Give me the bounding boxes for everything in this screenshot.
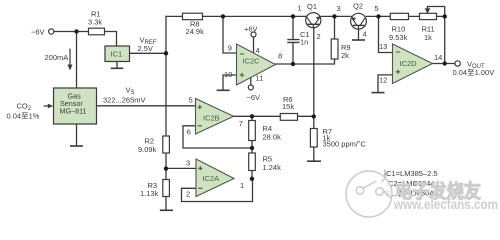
svg-text:Q1: Q1	[307, 2, 317, 11]
pin number labels	[186, 4, 442, 199]
svg-text:IC2C: IC2C	[243, 57, 261, 66]
node Q1 base R7	[312, 114, 316, 118]
svg-text:1: 1	[298, 4, 302, 13]
voltage reference IC1	[105, 46, 130, 62]
resistor R5	[249, 153, 281, 172]
svg-text:8: 8	[278, 52, 282, 61]
op-amp IC2D	[393, 44, 433, 84]
node IC2A output	[250, 177, 254, 181]
node IC2B output	[250, 114, 254, 118]
node pin9 rail	[221, 14, 225, 18]
node Vout	[443, 61, 447, 65]
node junction dots	[74, 14, 447, 181]
wire IC2C pin9 drop	[223, 16, 237, 53]
svg-text:IC2A: IC2A	[203, 174, 220, 183]
wire C1 branch	[292, 16, 294, 64]
svg-text:13: 13	[379, 42, 387, 51]
watermark logo	[346, 169, 392, 217]
ground IC2C pin10	[217, 89, 230, 91]
wire IC2C pin10 to ground	[223, 75, 237, 90]
svg-text:3500 ppm/˚C: 3500 ppm/˚C	[323, 140, 367, 149]
svg-text:−6V: −6V	[247, 93, 261, 102]
svg-text:IC1: IC1	[111, 50, 123, 59]
resistor R9	[331, 39, 350, 60]
wire Vs sensor to IC2B pin5	[96, 105, 196, 107]
arrow 200mA	[45, 49, 73, 71]
svg-text:3: 3	[337, 4, 341, 13]
resistor R3	[140, 180, 169, 199]
svg-text:IC2B: IC2B	[203, 113, 220, 122]
svg-text:4: 4	[363, 30, 367, 39]
transistor Q1	[306, 2, 321, 28]
wire IC2D pin12 to ground	[378, 75, 393, 93]
svg-text:28.0k: 28.0k	[263, 133, 282, 142]
svg-text:10: 10	[224, 70, 232, 79]
svg-text:MG–811: MG–811	[60, 107, 87, 116]
svg-text:1n: 1n	[300, 38, 308, 47]
terminal -6V	[31, 28, 54, 37]
capacitor C1	[287, 30, 309, 47]
ground IC2D pin12	[372, 92, 385, 94]
svg-text:1k: 1k	[424, 33, 432, 42]
svg-text:Q2: Q2	[353, 2, 363, 11]
resistor R6	[280, 95, 297, 120]
node 3 rail	[332, 14, 336, 18]
svg-text:6: 6	[187, 128, 191, 137]
svg-text:2: 2	[317, 32, 321, 41]
svg-text:1.24k: 1.24k	[263, 163, 282, 172]
svg-text:5: 5	[375, 4, 379, 13]
wire R4 R5 chain	[251, 116, 253, 179]
op-amp IC2A	[196, 159, 234, 197]
node C1 rail	[291, 14, 295, 18]
svg-text:1: 1	[240, 181, 244, 190]
resistor R2	[138, 136, 169, 154]
wire sensor top drop	[76, 32, 78, 89]
node IC2C output	[291, 62, 295, 66]
wire IC2C output to R9	[276, 16, 335, 64]
resistor R4	[249, 121, 281, 142]
svg-text:+6V: +6V	[244, 25, 258, 34]
svg-text:7: 7	[239, 119, 243, 128]
transistor Q2	[351, 2, 367, 30]
wire R7 lead	[313, 117, 315, 161]
svg-text:322...265mV: 322...265mV	[103, 96, 146, 105]
op-amp IC2C	[237, 44, 276, 85]
resistor R10	[389, 13, 409, 42]
svg-text:www.elecfans.com: www.elecfans.com	[393, 197, 498, 212]
svg-text:9: 9	[228, 44, 232, 53]
svg-text:15k: 15k	[282, 102, 294, 111]
svg-text:11: 11	[256, 74, 264, 83]
svg-text:9.53k: 9.53k	[389, 33, 408, 42]
svg-text:200mA: 200mA	[45, 53, 69, 62]
wire IC2A pin2 feedback loop	[182, 179, 253, 202]
wire R11 wiper loop	[428, 7, 445, 17]
wire IC2D output	[433, 63, 455, 65]
svg-text:9.09k: 9.09k	[138, 145, 157, 154]
svg-text:IC1=LM385–2.5: IC1=LM385–2.5	[384, 169, 438, 178]
svg-text:3: 3	[186, 159, 190, 168]
wire IC2B output rail	[234, 115, 314, 117]
wire feedback drop to Vout	[444, 16, 446, 63]
arrow CO2 input	[7, 102, 54, 121]
resistor R8	[183, 13, 205, 36]
svg-text:5: 5	[189, 96, 193, 105]
node R4 R5	[250, 146, 254, 150]
svg-text:24.9k: 24.9k	[186, 27, 205, 36]
node 5 rail	[376, 14, 380, 18]
svg-text:0.04至1%: 0.04至1%	[7, 112, 40, 121]
resistor R11 trimmer	[420, 7, 437, 42]
gas sensor MG-811	[54, 88, 97, 124]
terminal Vout	[453, 60, 495, 78]
ground Q2 base	[352, 39, 365, 41]
svg-text:0.04至1.00V: 0.04至1.00V	[453, 68, 495, 77]
node feedback rail	[443, 14, 447, 18]
svg-text:14: 14	[434, 53, 442, 62]
svg-text:−6V: −6V	[31, 28, 45, 37]
wire R2 R3 column	[165, 153, 167, 210]
resistor R7	[310, 127, 366, 149]
node R2 R3 divider	[164, 166, 168, 170]
ground IC1	[111, 67, 124, 69]
ground sensor	[70, 145, 83, 147]
svg-text:4: 4	[256, 46, 260, 55]
svg-text:3.3k: 3.3k	[88, 18, 102, 27]
node Vref IC1	[164, 51, 168, 55]
wire IC1 ground lead	[116, 62, 118, 69]
wire Vref vertical	[165, 16, 167, 136]
ground R3	[160, 209, 173, 211]
terminal +6V IC2C pin4	[244, 25, 258, 53]
wire node5 drop to IC2D pin13	[379, 16, 393, 52]
node sensor top	[74, 29, 78, 33]
op-amp IC2B	[196, 99, 234, 135]
resistor R1	[88, 10, 105, 35]
wire Q1 base drop	[313, 28, 315, 117]
terminal -6V IC2C pin11	[247, 78, 261, 102]
wire IC2B pin6 feedback loop	[183, 126, 252, 148]
wire top-left rail	[54, 32, 117, 47]
wire Q2 base to ground	[358, 30, 360, 40]
svg-text:12: 12	[379, 76, 387, 85]
ground R7	[307, 160, 321, 162]
wire top rail	[166, 15, 445, 17]
wire IC1 right to Vref node	[130, 52, 167, 54]
svg-text:2k: 2k	[341, 51, 349, 60]
svg-text:2.5V: 2.5V	[138, 44, 153, 53]
svg-text:IC2D: IC2D	[400, 59, 418, 68]
svg-text:1.13k: 1.13k	[140, 189, 159, 198]
wire IC2A pin3	[166, 167, 196, 169]
wire sensor bottom ground lead	[76, 124, 78, 146]
svg-text:2: 2	[186, 189, 190, 198]
